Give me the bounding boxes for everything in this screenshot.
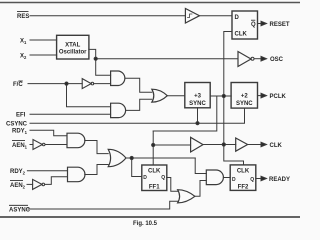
wire F/C branch to AND2 [67,84,111,107]
AND gate 5 (ready) [206,170,223,185]
wire AND5 out to FF2 D [223,177,230,179]
svg-text:D: D [143,175,147,181]
svg-text:Oscillator: Oscillator [59,50,87,56]
wire OR2 out [126,157,195,159]
svg-text:AEN2: AEN2 [10,183,26,190]
inverter AEN2 [33,179,42,189]
wire AND3 out to OR2 [85,141,108,154]
svg-text:RDY2: RDY2 [10,169,26,176]
reset D flip-flop box U1 [232,11,258,39]
wire OSC line [96,58,238,60]
wire inverter1 out [94,83,111,85]
svg-text:SYNC: SYNC [236,101,253,107]
wire F/C input [28,83,82,85]
arrowhead OSC [261,56,267,61]
wire AND1 out to OR1 [126,78,152,92]
arrowhead READY [261,176,267,181]
AND gate 4 (RDY2) [68,167,85,182]
svg-text:PCLK: PCLK [270,94,287,100]
svg-text:SYNC: SYNC [189,101,206,107]
OR gate 2 (rdy combine) [108,149,126,166]
junction node ff1 clk [152,143,155,146]
wire XTAL out to OSC node [89,49,96,58]
schmitt buffer U2 [185,9,199,24]
svg-text:CLK: CLK [235,32,248,38]
wire inverter3 out [45,177,68,185]
wire clk vertical to reset FF [224,32,232,145]
junction node clk buffer [222,143,225,146]
wire ASYNC [28,201,178,209]
junction node ready [130,156,133,159]
wire osc node down to AND1 [96,59,111,75]
wire clk dist to FF1 clk [152,131,154,165]
wire CSYNC [30,108,245,123]
OR gate 3 (async) [178,190,195,203]
svg-text:D: D [235,15,240,21]
svg-text:+3: +3 [194,94,202,100]
divide-by-3 SYNC box [185,83,210,108]
wire X2 [30,54,57,56]
svg-text:Fig. 10.5: Fig. 10.5 [133,221,158,227]
FF2 box [230,165,256,191]
svg-text:XTAL: XTAL [65,43,81,49]
wire buffer1 out [203,144,236,146]
svg-text:READY: READY [269,177,290,183]
osc buffer bubble [251,57,254,60]
AND gate 1 (osc & f/c) [111,71,125,86]
svg-text:RES: RES [17,14,29,20]
wire AEN2 in [27,183,33,185]
junction node csync [196,122,199,125]
wire div3 branch down [153,96,217,131]
wire FF1 Q to OR3 [167,178,178,192]
svg-text:F/C: F/C [13,82,23,88]
label F/C [13,81,23,88]
wire OR3 out to AND5 [195,181,206,197]
wire div3 bottom to CSYNC [197,108,199,123]
svg-text:CLK: CLK [237,169,250,175]
svg-text:Q: Q [251,22,256,28]
clk buffer2 [236,138,248,151]
bottom border rule [0,216,300,218]
svg-text:Q: Q [250,177,254,183]
svg-text:CLK: CLK [148,169,161,175]
svg-text:ASYNC: ASYNC [9,208,31,214]
wire RDY2 [27,170,67,172]
osc buffer U3 [238,52,251,67]
svg-text:FF1: FF1 [149,185,160,191]
wire OSC buffer out [254,58,266,60]
label ASYNC [9,205,31,213]
wire OR2 to FF1 D [132,158,142,177]
arrowhead PCLK [261,93,267,98]
label AEN2 [10,181,26,190]
top border rule [0,2,300,4]
junction node clk/div3 [222,94,225,97]
arrowhead CLK [261,142,267,147]
junction node f/c [65,82,68,85]
wire AEN1 in [30,144,33,146]
wire inverter2 out [46,144,68,146]
clk buffer1 [191,137,203,152]
label RES [17,12,29,20]
wire div2 out PCLK [258,95,267,97]
inverter AEN1 [33,140,42,150]
svg-text:AEN1: AEN1 [12,143,28,150]
arrowhead RESET [261,21,267,26]
XTAL oscillator box [57,35,89,59]
wire buffer2 out CLK [248,144,266,146]
svg-text:Q: Q [161,175,165,181]
wire RDY1 [30,130,67,136]
AND gate 2 (f/c & EFI) [111,103,126,117]
wire RES input [30,15,185,17]
wire AND2 out to OR1 [126,99,152,110]
svg-text:X1: X1 [20,39,27,46]
schmitt hysteresis mark [188,14,193,18]
divide-by-2 SYNC box [231,83,257,109]
wire to buffer1 in [153,144,190,146]
wire AND4 out to OR2 [85,165,108,175]
FF1 box [142,165,167,191]
svg-text:X2: X2 [20,54,27,61]
wire schmitt to D [200,15,233,17]
svg-text:D: D [232,177,236,183]
OR gate 1 (to div3) [152,89,168,102]
wire FF2 Q out READY [256,178,266,180]
AND gate 3 (RDY1) [67,133,85,148]
wire EFI [30,113,111,115]
wire div3 out to div2 [210,95,231,97]
wire X1 [30,39,57,41]
svg-text:CSYNC: CSYNC [6,122,28,128]
junction node osc [94,57,97,60]
wire OR1 out [167,95,185,97]
svg-text:RDY1: RDY1 [12,129,28,136]
wire reset FF out [258,23,267,25]
wire clk down to FF2 [224,145,244,165]
label AEN1 [12,141,28,150]
svg-text:RESET: RESET [270,22,290,28]
wire bypass down to AND5 [195,158,206,174]
svg-text:CLK: CLK [270,143,283,149]
inverter F/C [82,79,91,89]
svg-text:EFI: EFI [16,113,26,119]
svg-text:FF2: FF2 [238,185,249,191]
svg-text:OSC: OSC [270,57,284,63]
svg-text:+2: +2 [241,94,249,100]
